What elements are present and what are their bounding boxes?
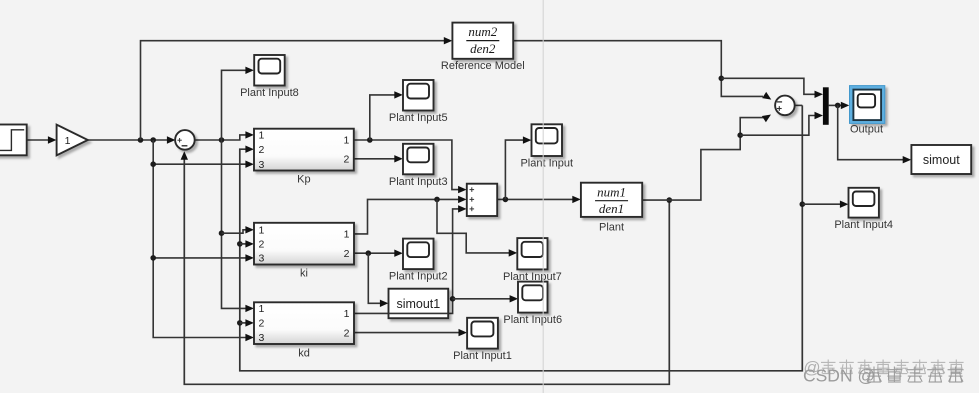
svg-text:ki: ki bbox=[300, 268, 308, 280]
svg-text:1: 1 bbox=[344, 229, 350, 241]
svg-text:1: 1 bbox=[259, 225, 265, 237]
svg-text:2: 2 bbox=[259, 239, 265, 251]
svg-text:Plant: Plant bbox=[599, 222, 624, 234]
svg-text:3: 3 bbox=[259, 253, 265, 265]
svg-text:Plant Input: Plant Input bbox=[520, 158, 573, 170]
svg-text:2: 2 bbox=[259, 318, 265, 330]
svg-text:Plant Input3: Plant Input3 bbox=[389, 176, 448, 188]
svg-text:2: 2 bbox=[259, 144, 265, 156]
svg-text:Plant Input1: Plant Input1 bbox=[453, 350, 512, 362]
svg-text:simout1: simout1 bbox=[396, 297, 440, 311]
svg-text:Output: Output bbox=[850, 124, 883, 136]
svg-text:1: 1 bbox=[259, 130, 265, 142]
svg-text:num1: num1 bbox=[597, 184, 626, 199]
svg-text:3: 3 bbox=[259, 159, 265, 171]
svg-text:2: 2 bbox=[343, 154, 349, 166]
svg-text:1: 1 bbox=[259, 303, 265, 315]
svg-text:1: 1 bbox=[343, 135, 349, 147]
svg-text:1: 1 bbox=[65, 135, 71, 147]
svg-text:2: 2 bbox=[344, 248, 350, 260]
svg-text:1: 1 bbox=[344, 308, 350, 320]
svg-text:Plant Input8: Plant Input8 bbox=[240, 87, 299, 99]
svg-text:num2: num2 bbox=[468, 24, 497, 39]
svg-text:Plant Input5: Plant Input5 bbox=[389, 112, 448, 124]
svg-text:2: 2 bbox=[344, 327, 350, 339]
svg-text:kd: kd bbox=[298, 347, 310, 359]
svg-text:Plant Input6: Plant Input6 bbox=[503, 314, 562, 326]
svg-text:3: 3 bbox=[259, 332, 265, 344]
svg-text:Plant Input2: Plant Input2 bbox=[389, 271, 448, 283]
svg-text:den2: den2 bbox=[470, 41, 496, 56]
svg-text:Kp: Kp bbox=[297, 174, 310, 186]
svg-text:CSDN @: CSDN @ bbox=[803, 366, 875, 386]
svg-text:simout: simout bbox=[923, 153, 960, 167]
svg-text:Plant Input4: Plant Input4 bbox=[834, 219, 893, 231]
svg-text:den1: den1 bbox=[599, 201, 624, 216]
svg-text:Reference Model: Reference Model bbox=[441, 60, 525, 72]
